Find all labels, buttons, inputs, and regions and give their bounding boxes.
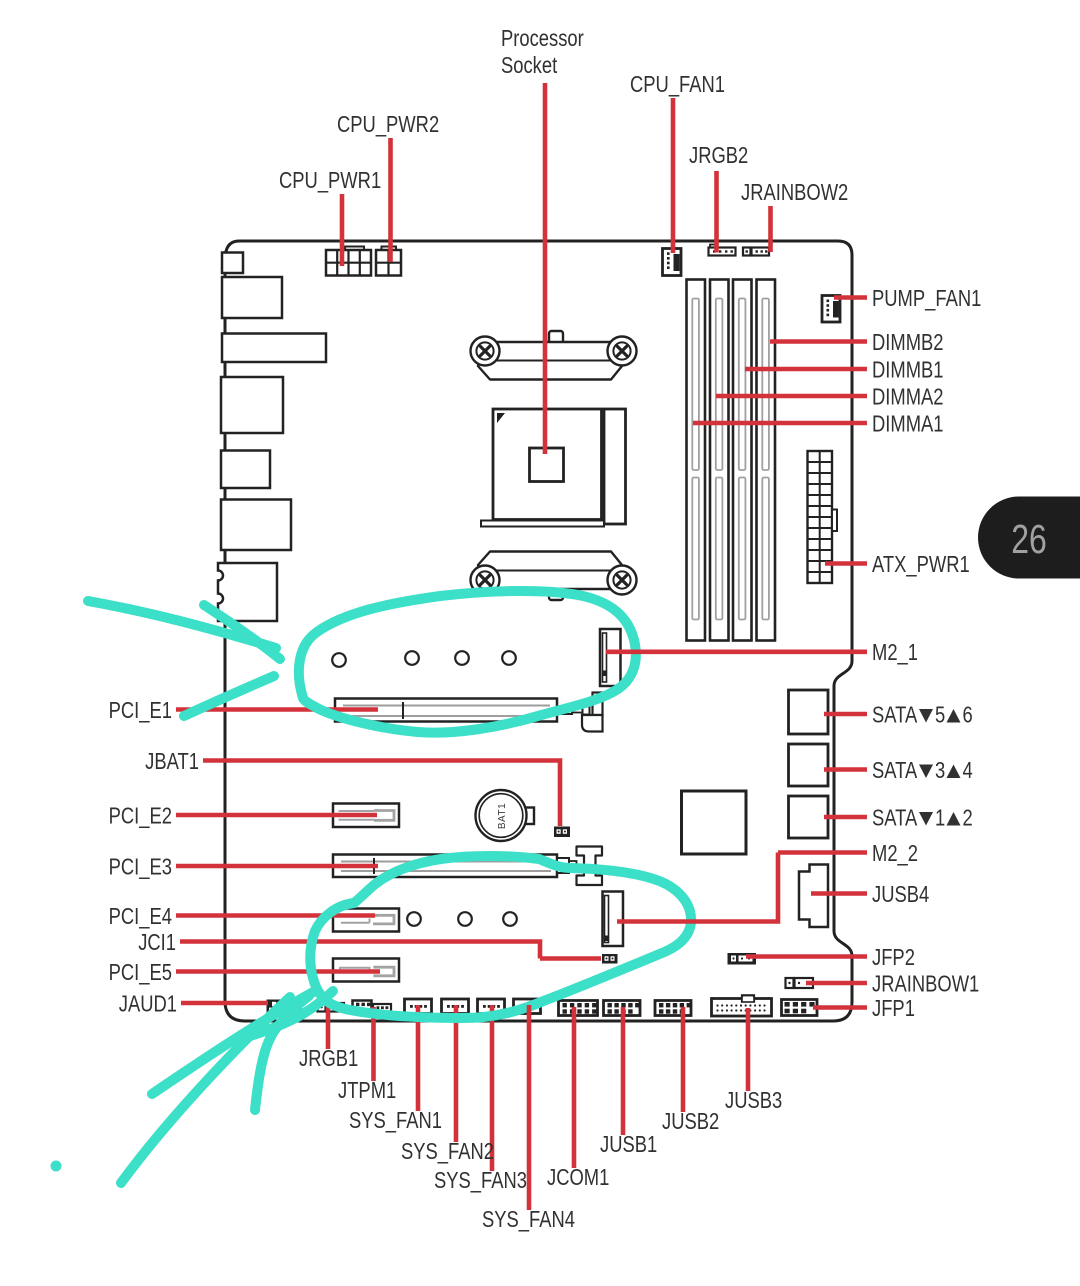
svg-text:JFP1: JFP1 bbox=[872, 996, 915, 1021]
label JUSB2 bbox=[662, 1109, 719, 1134]
label JBAT1 bbox=[145, 749, 199, 774]
M2_2 standoff holes bbox=[407, 912, 517, 926]
header SYS_FAN3 bbox=[478, 999, 505, 1014]
PCI slot PCI_E1 bbox=[335, 699, 557, 722]
label PCI_E2 bbox=[109, 804, 172, 829]
svg-text:4: 4 bbox=[963, 758, 973, 783]
svg-text:JCOM1: JCOM1 bbox=[547, 1165, 609, 1190]
svg-text:1: 1 bbox=[935, 806, 945, 831]
teal marker stroke upper-left long bbox=[88, 601, 276, 648]
leader line JRAINBOW1 bbox=[806, 981, 867, 986]
label ATX_PWR1 bbox=[872, 552, 970, 577]
label DIMMB2 bbox=[872, 330, 944, 355]
leader line SATA 1/2 bbox=[824, 815, 867, 820]
label DIMMA1 bbox=[872, 412, 944, 437]
svg-text:2: 2 bbox=[963, 806, 973, 831]
header JRAINBOW2 bbox=[743, 248, 769, 256]
label JUSB4 bbox=[872, 882, 929, 907]
svg-text:JBAT1: JBAT1 bbox=[145, 749, 199, 774]
header JUSB1 bbox=[604, 1001, 641, 1016]
battery BAT1 bbox=[476, 790, 535, 841]
SATA ports 3/4 bbox=[789, 744, 829, 786]
svg-text:DIMMB1: DIMMB1 bbox=[872, 358, 944, 383]
leader line JBAT1 bbox=[203, 758, 560, 826]
teal marker dot bbox=[51, 1161, 62, 1172]
svg-text:CPU_PWR2: CPU_PWR2 bbox=[337, 112, 439, 137]
header JAUD1 bbox=[267, 1000, 302, 1014]
svg-text:PCI_E3: PCI_E3 bbox=[109, 855, 172, 880]
svg-text:PCI_E5: PCI_E5 bbox=[109, 960, 172, 985]
svg-text:Processor: Processor bbox=[501, 26, 584, 51]
SATA ports 5/6 bbox=[789, 690, 829, 734]
label JUSB1 bbox=[600, 1132, 657, 1157]
header JRGB1 bbox=[318, 1003, 345, 1012]
svg-text:SYS_FAN4: SYS_FAN4 bbox=[482, 1207, 575, 1232]
leader line PCI_E2 bbox=[176, 813, 377, 818]
svg-text:BAT1: BAT1 bbox=[497, 803, 508, 829]
header SYS_FAN4 bbox=[514, 999, 541, 1014]
svg-text:5: 5 bbox=[935, 703, 945, 728]
svg-text:JFP2: JFP2 bbox=[872, 945, 915, 970]
svg-text:JCI1: JCI1 bbox=[138, 930, 176, 955]
leader line SYS_FAN3 bbox=[490, 1005, 495, 1171]
svg-text:6: 6 bbox=[963, 703, 973, 728]
svg-text:DIMMA2: DIMMA2 bbox=[872, 385, 944, 410]
leader line JUSB1 bbox=[621, 1007, 626, 1135]
leader line PCI_E5 bbox=[176, 969, 380, 974]
leader line CPU_FAN1 bbox=[671, 98, 676, 253]
label SYS_FAN1 bbox=[349, 1108, 442, 1133]
PCI slot PCI_E5 bbox=[333, 959, 399, 982]
rear IO block D bbox=[221, 451, 270, 489]
label PCI_E4 bbox=[109, 904, 172, 929]
label DIMMB1 bbox=[872, 358, 944, 383]
header JTPM1 bbox=[353, 1001, 392, 1014]
label SATA 3/4 bbox=[872, 758, 973, 783]
svg-text:SATA: SATA bbox=[872, 758, 917, 783]
leader line DIMMB1 bbox=[745, 367, 867, 372]
svg-text:PUMP_FAN1: PUMP_FAN1 bbox=[872, 286, 981, 311]
PCI slot PCI_E2 bbox=[333, 804, 399, 828]
label CPU_PWR2 bbox=[337, 112, 439, 137]
svg-text:SATA: SATA bbox=[872, 703, 917, 728]
label JFP1 bbox=[872, 996, 915, 1021]
svg-text:DIMMA1: DIMMA1 bbox=[872, 412, 944, 437]
leader line PCI_E3 bbox=[176, 864, 378, 869]
leader line CPU_PWR1 bbox=[340, 194, 345, 266]
PCI_E1 latch bbox=[557, 693, 603, 732]
connector ATX_PWR1 bbox=[808, 451, 838, 583]
rear IO tab bbox=[222, 253, 243, 274]
leader line SATA 3/4 bbox=[824, 767, 867, 772]
SATA ports 1/2 bbox=[789, 796, 829, 838]
leader line DIMMA1 bbox=[693, 421, 867, 426]
leader line M2_2 bbox=[617, 853, 867, 924]
CPU retention bracket top bbox=[471, 331, 637, 380]
svg-text:DIMMB2: DIMMB2 bbox=[872, 330, 944, 355]
jumper JFP2 bbox=[728, 953, 757, 965]
leader line CPU_PWR2 bbox=[388, 138, 393, 262]
teal marker loop around M2_2 bbox=[310, 856, 691, 1018]
label CPU_FAN1 bbox=[630, 72, 725, 97]
svg-text:SYS_FAN1: SYS_FAN1 bbox=[349, 1108, 442, 1133]
svg-text:JRAINBOW1: JRAINBOW1 bbox=[872, 972, 979, 997]
leader line DIMMA2 bbox=[716, 394, 867, 399]
leader line JRAINBOW2 bbox=[768, 206, 773, 252]
header SYS_FAN2 bbox=[442, 999, 469, 1014]
label M2_1 bbox=[872, 640, 918, 665]
label Processor Socket bbox=[501, 26, 584, 78]
svg-text:PCI_E4: PCI_E4 bbox=[109, 904, 172, 929]
header SYS_FAN1 bbox=[405, 999, 432, 1014]
leader line JRGB1 bbox=[326, 1007, 331, 1049]
label SYS_FAN4 bbox=[482, 1207, 575, 1232]
label JTPM1 bbox=[338, 1078, 396, 1103]
page number pill 26 bbox=[978, 497, 1080, 579]
leader line DIMMB2 bbox=[770, 339, 867, 344]
label JRGB1 bbox=[299, 1046, 358, 1071]
leader line SATA 5/6 bbox=[824, 712, 867, 717]
svg-text:JTPM1: JTPM1 bbox=[338, 1078, 396, 1103]
leader line SYS_FAN1 bbox=[416, 1005, 421, 1111]
svg-text:JUSB3: JUSB3 bbox=[725, 1088, 782, 1113]
leader line PCI_E4 bbox=[176, 913, 375, 918]
svg-text:JUSB4: JUSB4 bbox=[872, 882, 929, 907]
label SYS_FAN3 bbox=[434, 1168, 527, 1193]
svg-text:26: 26 bbox=[1011, 516, 1047, 562]
leader line JUSB3 bbox=[746, 1008, 751, 1091]
leader line JAUD1 bbox=[181, 1001, 268, 1006]
svg-text:JUSB2: JUSB2 bbox=[662, 1109, 719, 1134]
PCI slot PCI_E4 bbox=[333, 909, 399, 932]
label SATA 1/2 bbox=[872, 806, 973, 831]
jumper JCI1 bbox=[602, 954, 618, 964]
processor socket bbox=[481, 409, 626, 527]
M2 slot M2_2 bbox=[603, 892, 624, 947]
label JRGB2 bbox=[689, 143, 748, 168]
label JCI1 bbox=[138, 930, 176, 955]
header JRGB2 bbox=[709, 245, 736, 256]
leader line ATX_PWR1 bbox=[825, 561, 867, 566]
PCI_E3 latch bbox=[557, 847, 602, 886]
svg-text:M2_2: M2_2 bbox=[872, 841, 918, 866]
label JUSB3 bbox=[725, 1088, 782, 1113]
svg-text:JRAINBOW2: JRAINBOW2 bbox=[741, 180, 848, 205]
DIMM slot DIMMB1 bbox=[733, 280, 752, 641]
rear IO block A bbox=[222, 277, 282, 318]
label PUMP_FAN1 bbox=[872, 286, 981, 311]
label PCI_E3 bbox=[109, 855, 172, 880]
leader line JCI1 bbox=[180, 939, 601, 958]
leader line PUMP_FAN1 bbox=[834, 295, 867, 300]
teal marker loop around M2_1 bbox=[299, 591, 636, 733]
label PCI_E5 bbox=[109, 960, 172, 985]
svg-text:Socket: Socket bbox=[501, 53, 557, 78]
svg-text:CPU_PWR1: CPU_PWR1 bbox=[279, 168, 381, 193]
label M2_2 bbox=[872, 841, 918, 866]
header CPU_FAN1 bbox=[663, 249, 682, 276]
connector JUSB3 bbox=[712, 995, 772, 1016]
connector CPU_PWR1 bbox=[326, 247, 371, 276]
rear IO block C bbox=[221, 377, 283, 433]
label JRAINBOW2 bbox=[741, 180, 848, 205]
DIMM slot DIMMA2 bbox=[710, 280, 729, 641]
label DIMMA2 bbox=[872, 385, 944, 410]
DIMM slot DIMMB2 bbox=[757, 280, 776, 641]
jumper JBAT1 bbox=[554, 827, 570, 838]
svg-text:SYS_FAN3: SYS_FAN3 bbox=[434, 1168, 527, 1193]
connector CPU_PWR2 bbox=[376, 247, 401, 276]
PCI slot PCI_E3 bbox=[333, 855, 557, 878]
svg-text:PCI_E1: PCI_E1 bbox=[109, 698, 172, 723]
label JRAINBOW1 bbox=[872, 972, 979, 997]
label CPU_PWR1 bbox=[279, 168, 381, 193]
motherboard outline bbox=[225, 241, 852, 1021]
teal marker tail stroke 2 bbox=[152, 991, 315, 1094]
svg-text:PCI_E2: PCI_E2 bbox=[109, 804, 172, 829]
rear IO block F audio bbox=[218, 563, 277, 621]
leader line JTPM1 bbox=[371, 1007, 376, 1081]
svg-text:JAUD1: JAUD1 bbox=[119, 992, 177, 1017]
svg-text:JUSB1: JUSB1 bbox=[600, 1132, 657, 1157]
svg-text:SATA: SATA bbox=[872, 806, 917, 831]
svg-text:JRGB1: JRGB1 bbox=[299, 1046, 358, 1071]
leader line JCOM1 bbox=[572, 1007, 577, 1168]
label SATA 5/6 bbox=[872, 703, 973, 728]
teal marker tail stroke 3 bbox=[255, 996, 309, 1110]
label JAUD1 bbox=[119, 992, 177, 1017]
header JCOM1 bbox=[559, 1001, 598, 1016]
teal marker tail stroke 4 bbox=[250, 991, 333, 1036]
label SYS_FAN2 bbox=[401, 1139, 494, 1164]
leader line Processor Socket bbox=[543, 83, 548, 454]
header JFP1 bbox=[782, 1000, 818, 1016]
M2_1 standoff holes bbox=[332, 651, 516, 667]
rear IO block E bbox=[221, 500, 291, 551]
M2 slot M2_1 bbox=[600, 629, 621, 686]
svg-text:ATX_PWR1: ATX_PWR1 bbox=[872, 552, 970, 577]
leader line JUSB4 bbox=[811, 891, 867, 896]
teal marker tail stroke 1 bbox=[121, 997, 290, 1183]
leader line PCI_E1 bbox=[176, 707, 378, 712]
leader line SYS_FAN4 bbox=[527, 1005, 532, 1210]
leader line M2_1 bbox=[606, 649, 867, 654]
svg-text:SYS_FAN2: SYS_FAN2 bbox=[401, 1139, 494, 1164]
leader line JFP1 bbox=[813, 1005, 867, 1010]
svg-text:3: 3 bbox=[935, 758, 945, 783]
svg-text:JRGB2: JRGB2 bbox=[689, 143, 748, 168]
leader line JUSB2 bbox=[681, 1007, 686, 1112]
rear IO block B bbox=[222, 334, 326, 363]
teal marker stroke upper diag bbox=[184, 676, 274, 716]
DIMM slot DIMMA1 bbox=[687, 280, 706, 641]
connector JUSB4 bbox=[799, 865, 828, 928]
leader line SYS_FAN2 bbox=[454, 1005, 459, 1142]
header PUMP_FAN1 bbox=[822, 296, 840, 323]
svg-text:CPU_FAN1: CPU_FAN1 bbox=[630, 72, 725, 97]
teal marker stroke upper-left short bbox=[204, 605, 280, 659]
leader line JRGB2 bbox=[714, 171, 719, 253]
label JFP2 bbox=[872, 945, 915, 970]
svg-text:M2_1: M2_1 bbox=[872, 640, 918, 665]
label JCOM1 bbox=[547, 1165, 609, 1190]
leader line JFP2 bbox=[746, 954, 867, 959]
label PCI_E1 bbox=[109, 698, 172, 723]
header JUSB2 bbox=[655, 1001, 691, 1016]
CPU retention bracket bottom bbox=[471, 552, 637, 601]
chipset bbox=[682, 791, 747, 854]
header JRAINBOW1 bbox=[786, 978, 814, 988]
